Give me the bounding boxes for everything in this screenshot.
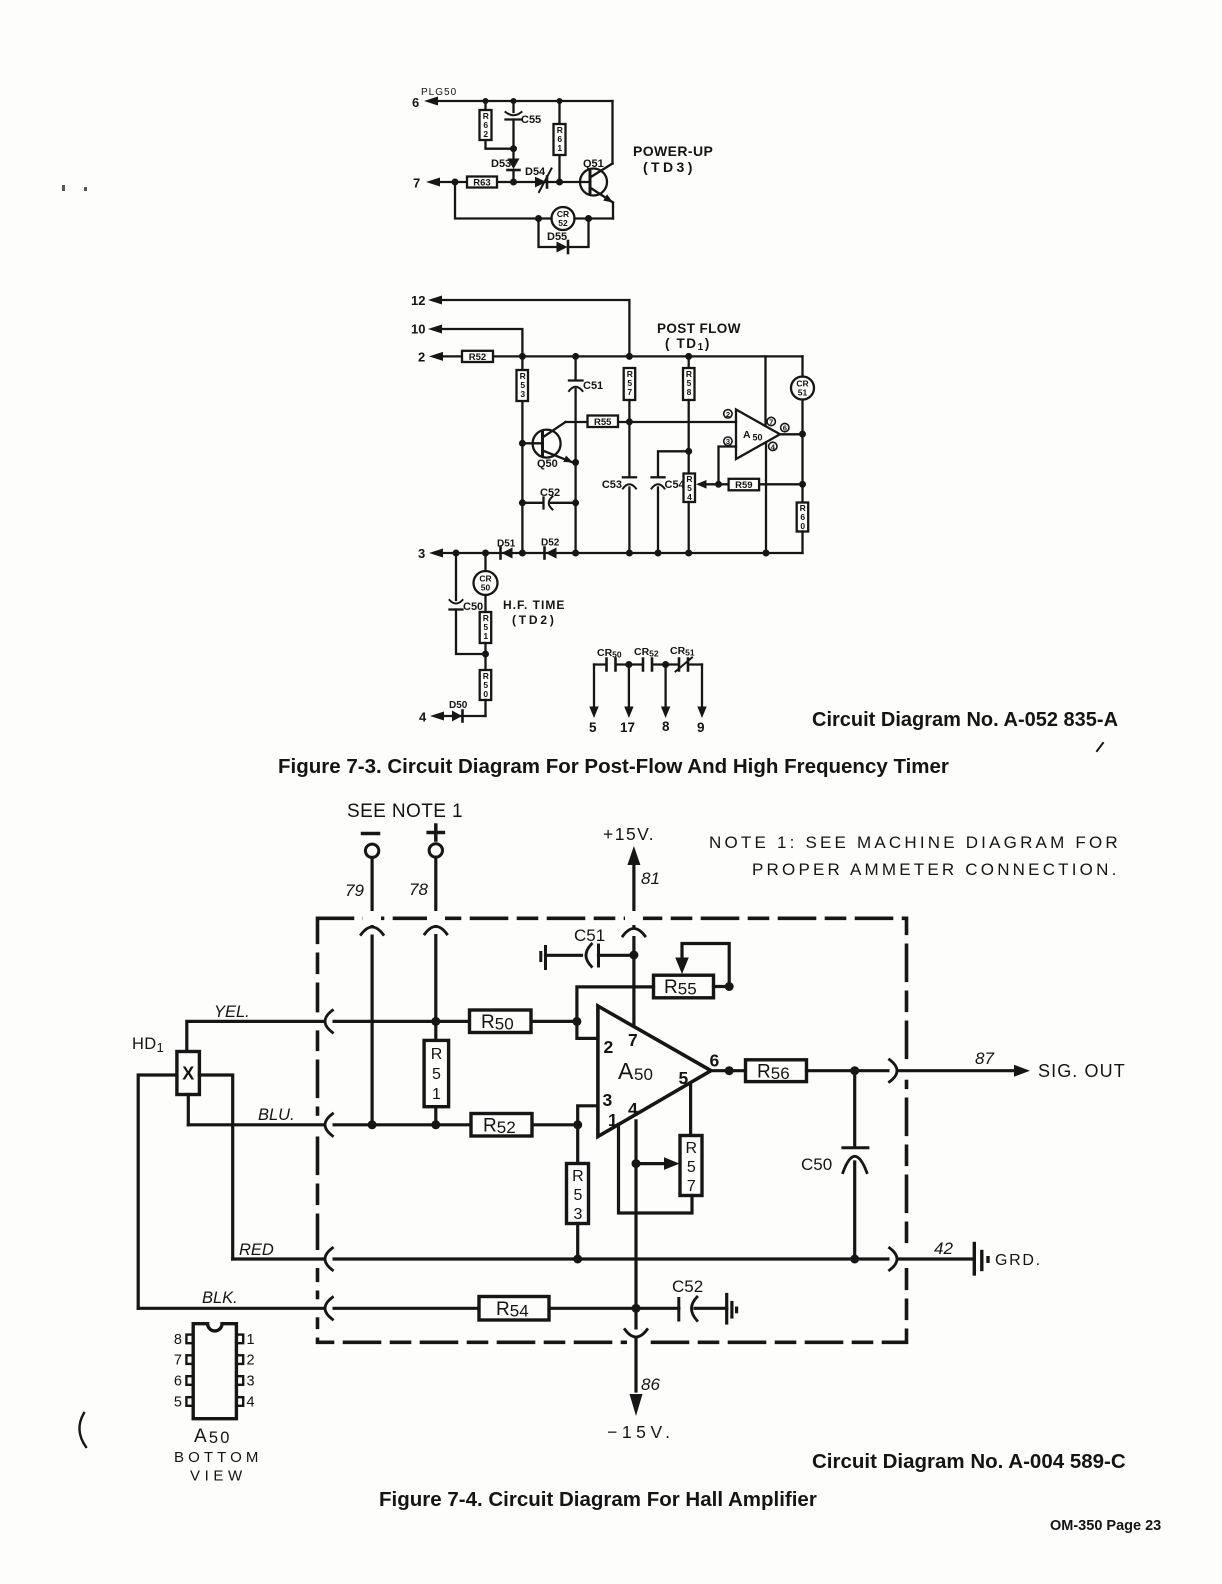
junction	[799, 431, 806, 438]
svg-text:BLK.: BLK.	[202, 1289, 238, 1307]
capacitor C52	[672, 1277, 738, 1323]
svg-text:CR51: CR51	[670, 645, 695, 658]
resistor R54	[479, 1297, 549, 1321]
resistor R59 with wiper arrow to R54	[696, 479, 803, 491]
svg-text:5: 5	[573, 1187, 582, 1204]
node 5	[589, 720, 597, 735]
svg-text:D54: D54	[525, 166, 546, 178]
svg-text:12: 12	[411, 293, 425, 308]
label A50 BOTTOM VIEW	[174, 1426, 263, 1485]
svg-text:R: R	[572, 1168, 584, 1185]
resistor R50 (TD2)	[480, 670, 492, 716]
svg-text:(TD2): (TD2)	[512, 613, 557, 627]
junction	[632, 1159, 641, 1168]
svg-text:6: 6	[412, 95, 419, 110]
svg-text:8: 8	[662, 719, 670, 734]
svg-text:C53: C53	[602, 479, 622, 491]
wire: A50 output	[711, 1069, 746, 1072]
svg-text:POST FLOW: POST FLOW	[657, 321, 741, 336]
node 79	[345, 881, 364, 900]
stray parenthesis mark	[79, 1413, 86, 1447]
svg-text:R: R	[686, 1140, 698, 1157]
svg-text:BLU.: BLU.	[258, 1106, 295, 1124]
wire: minus lead	[371, 858, 374, 1125]
svg-text:Circuit Diagram No. A-004 589-: Circuit Diagram No. A-004 589-C	[812, 1450, 1126, 1473]
junction	[850, 1255, 859, 1264]
svg-text:OM-350 Page 23: OM-350 Page 23	[1050, 1518, 1161, 1534]
junction	[556, 179, 563, 186]
capacitor C52 (TD1)	[522, 487, 575, 510]
node 3	[418, 546, 425, 561]
junction	[511, 98, 517, 104]
contact CR51 (normally closed)	[676, 658, 693, 672]
DIP pin number 4	[247, 1395, 255, 1411]
svg-text:4: 4	[687, 492, 692, 502]
label YEL.	[214, 1003, 250, 1021]
junction	[510, 179, 517, 186]
node 87	[975, 1049, 994, 1068]
wire: contact bus	[594, 663, 702, 665]
relay coil CR52	[552, 207, 575, 230]
break mark plus lead	[425, 927, 447, 935]
junction	[626, 353, 633, 360]
svg-text:R50: R50	[481, 1012, 514, 1034]
svg-text:A50: A50	[194, 1426, 232, 1447]
svg-text:+15V.: +15V.	[603, 824, 655, 844]
stray specks	[62, 185, 87, 191]
wire: YEL lead	[187, 1021, 577, 1051]
wire: node 4	[442, 715, 486, 717]
wire: pin 3 jog	[578, 1106, 598, 1125]
node 7	[413, 176, 420, 191]
junction	[685, 448, 692, 455]
wire: TD1 top rail	[441, 355, 803, 357]
break mark minus lead	[361, 927, 383, 935]
svg-text:86: 86	[641, 1375, 660, 1394]
hall device X	[177, 1052, 200, 1095]
svg-text:BOTTOM: BOTTOM	[174, 1449, 263, 1466]
pin 1	[608, 1110, 618, 1130]
svg-text:8: 8	[174, 1332, 182, 1348]
svg-text:5: 5	[679, 1068, 689, 1088]
capacitor C55	[506, 101, 542, 159]
wire: A50 output	[780, 433, 803, 435]
wire: R57 column	[628, 400, 630, 553]
svg-text:PROPER AMMETER CONNECTION.: PROPER AMMETER CONNECTION.	[752, 860, 1120, 879]
label POST FLOW (TD1)	[657, 321, 741, 353]
svg-text:7: 7	[628, 1030, 638, 1050]
svg-text:10: 10	[411, 322, 425, 337]
svg-text:YEL.: YEL.	[214, 1003, 250, 1021]
svg-text:C55: C55	[521, 114, 541, 126]
svg-text:17: 17	[620, 720, 635, 735]
wire: terminal 5 arrow	[589, 665, 598, 719]
svg-text:3: 3	[247, 1374, 255, 1390]
svg-text:A: A	[618, 1058, 634, 1084]
svg-text:1: 1	[483, 631, 488, 641]
node 10	[411, 322, 425, 337]
resistor R57	[624, 368, 636, 400]
svg-text:5: 5	[589, 720, 597, 735]
svg-text:Figure 7-3. Circuit Diagram Fo: Figure 7-3. Circuit Diagram For Post-Flo…	[278, 755, 949, 778]
svg-text:1: 1	[432, 1086, 441, 1103]
wire: pin 7 from top rail	[764, 356, 766, 425]
junction	[585, 215, 592, 222]
junction	[572, 353, 579, 360]
contact CR51 label	[670, 645, 695, 658]
svg-text:R52: R52	[469, 352, 486, 363]
svg-text:SEE NOTE 1: SEE NOTE 1	[347, 801, 463, 822]
op-amp A50 (TD1)	[736, 410, 780, 460]
caption: Circuit Diagram No. A-004 589-C	[812, 1450, 1126, 1473]
svg-text:5: 5	[687, 1159, 696, 1176]
svg-text:51: 51	[798, 388, 808, 398]
label BLU.	[258, 1106, 295, 1124]
resistor R58	[683, 356, 695, 473]
pin 6	[710, 1051, 720, 1071]
wire: R55 left to inverting node	[577, 987, 654, 1022]
svg-text:A: A	[743, 429, 751, 441]
wire: X left to BLK	[138, 1075, 177, 1308]
junction	[482, 651, 489, 658]
wire: plus lead	[434, 857, 437, 1021]
dashed enclosure	[318, 918, 907, 1342]
svg-text:50: 50	[753, 433, 763, 443]
contact CR50 label	[597, 647, 622, 660]
svg-text:CR50: CR50	[597, 647, 622, 660]
svg-text:Circuit Diagram No. A-052 835-: Circuit Diagram No. A-052 835-A	[812, 709, 1118, 731]
footer: OM-350 Page 23	[1050, 1518, 1161, 1534]
junction	[572, 499, 579, 506]
svg-text:50: 50	[481, 583, 491, 593]
label POWER-UP (TD3)	[633, 143, 713, 175]
svg-text:C51: C51	[574, 926, 605, 945]
resistor R56	[746, 1060, 807, 1083]
svg-text:R54: R54	[496, 1299, 529, 1321]
svg-text:1: 1	[557, 143, 562, 153]
pin 3	[603, 1090, 613, 1110]
terminal minus	[363, 834, 379, 858]
svg-text:R59: R59	[735, 480, 752, 491]
junction	[573, 1120, 582, 1129]
svg-text:79: 79	[345, 881, 364, 900]
junction	[519, 353, 526, 360]
node 12	[411, 293, 425, 308]
wire: terminal 9 arrow	[697, 665, 706, 719]
svg-text:X: X	[182, 1064, 194, 1084]
svg-text:R56: R56	[757, 1062, 790, 1084]
svg-text:CR52: CR52	[634, 646, 659, 659]
break mark +15V lead	[623, 929, 645, 937]
op-amp A50	[598, 1006, 711, 1137]
junction	[629, 951, 638, 960]
junction	[368, 1120, 377, 1129]
wire: TD1 bottom rail	[441, 552, 803, 554]
pin 2	[724, 410, 732, 419]
svg-text:7: 7	[174, 1353, 182, 1369]
svg-text:Q50: Q50	[537, 458, 558, 470]
A50 DIP package bottom view	[186, 1324, 243, 1419]
DIP pin number 3	[247, 1374, 255, 1390]
resistor R61	[554, 101, 566, 182]
junction	[850, 1066, 859, 1075]
relay coil CR50	[474, 553, 498, 612]
svg-text:52: 52	[558, 218, 568, 228]
break mark output	[890, 1060, 898, 1082]
wire: X right to RED	[199, 1075, 232, 1259]
junction	[572, 459, 579, 466]
svg-text:2: 2	[483, 129, 488, 139]
svg-text:R55: R55	[594, 417, 612, 428]
junction	[519, 440, 526, 447]
caption: Figure 7-3	[278, 755, 949, 778]
svg-text:5: 5	[174, 1395, 182, 1411]
svg-text:0: 0	[483, 689, 488, 699]
svg-text:87: 87	[975, 1049, 994, 1068]
capacitor C53	[602, 477, 636, 491]
resistor R51 (TD2)	[480, 612, 492, 670]
junction	[519, 499, 526, 506]
svg-text:1: 1	[608, 1110, 618, 1130]
svg-text:3: 3	[573, 1206, 582, 1223]
diode D50	[449, 700, 468, 722]
diode D54	[525, 166, 552, 192]
caption: Circuit Diagram No. A-052 835-A	[812, 709, 1118, 731]
resistor R52	[462, 351, 493, 363]
resistor R57	[680, 1136, 702, 1196]
wire: pin 5 to R57	[689, 1086, 692, 1136]
svg-text:Figure 7-4. Circuit Diagram Fo: Figure 7-4. Circuit Diagram For Hall Amp…	[379, 1488, 817, 1511]
wire: BLK lead	[138, 1307, 679, 1310]
junction	[573, 1255, 582, 1264]
svg-text:R55: R55	[664, 977, 697, 999]
node 4	[419, 710, 427, 725]
junction	[632, 1304, 641, 1313]
wire: pin 4 / -15V rail	[634, 1121, 637, 1391]
resistor R53	[517, 356, 529, 553]
resistor R63	[467, 177, 497, 189]
transistor Q51	[580, 158, 613, 203]
DIP pin number 8	[174, 1332, 182, 1348]
node 42	[934, 1239, 953, 1258]
resistor R51	[424, 1021, 449, 1124]
border gaps at wire crossings	[311, 911, 914, 1349]
svg-text:D53: D53	[491, 158, 511, 170]
svg-text:D50: D50	[449, 700, 468, 711]
svg-text:2: 2	[418, 350, 425, 365]
junction	[685, 353, 692, 360]
svg-text:4: 4	[628, 1099, 638, 1119]
svg-text:2: 2	[726, 410, 730, 419]
junction	[431, 1017, 440, 1026]
wire: TD3 bottom loop	[455, 182, 613, 219]
label SIG. OUT	[1038, 1061, 1126, 1081]
DIP pin number 6	[174, 1374, 182, 1390]
svg-text:0: 0	[800, 521, 805, 531]
junction	[572, 1017, 581, 1026]
node 81	[641, 869, 660, 888]
wire: Q51 emitter down	[612, 203, 614, 219]
junction	[725, 1066, 734, 1075]
svg-text:81: 81	[641, 869, 660, 888]
svg-text:7: 7	[687, 1178, 696, 1195]
R57 wiper arrow	[636, 1157, 680, 1170]
capacitor C50	[801, 1071, 868, 1259]
junction	[799, 481, 806, 488]
svg-text:6: 6	[710, 1051, 720, 1071]
svg-text:4: 4	[247, 1395, 255, 1411]
capacitor C51 (TD1)	[569, 356, 603, 553]
contact CR52	[643, 659, 652, 671]
svg-text:2: 2	[247, 1353, 255, 1369]
junctions on bottom rail	[453, 550, 460, 557]
wire: terminal 8 arrow	[661, 665, 670, 719]
node 9	[697, 720, 705, 735]
svg-text:3: 3	[603, 1090, 613, 1110]
wire: X bottom to BLU	[187, 1095, 190, 1125]
relay coil CR51	[791, 356, 814, 502]
node 17	[620, 720, 635, 735]
diode D55	[539, 219, 589, 254]
svg-text:3: 3	[726, 437, 730, 446]
svg-text:6: 6	[174, 1374, 182, 1390]
junction	[715, 481, 722, 488]
resistor R55	[654, 975, 714, 998]
wire: node 12 to R57 column	[440, 300, 629, 356]
svg-text:50: 50	[634, 1065, 653, 1084]
pin 4	[628, 1099, 638, 1119]
ground GRD termination	[974, 1244, 1042, 1275]
svg-text:D55: D55	[547, 231, 567, 243]
svg-text:NOTE 1: SEE MACHINE DIAGRAM FO: NOTE 1: SEE MACHINE DIAGRAM FOR	[709, 833, 1121, 852]
svg-text:(TD3): (TD3)	[643, 159, 696, 175]
svg-text:7: 7	[627, 387, 632, 397]
svg-text:2: 2	[604, 1037, 614, 1057]
DIP pin number 1	[247, 1332, 255, 1348]
junction	[662, 661, 669, 668]
diode D53	[491, 158, 520, 182]
caption: Figure 7-4	[379, 1488, 817, 1511]
svg-text:VIEW: VIEW	[190, 1468, 247, 1485]
wire: pin 1 loop to R57 bottom	[619, 1125, 693, 1214]
wire: node 6 top rail	[436, 100, 613, 102]
junction	[431, 1120, 440, 1129]
resistor R52	[471, 1114, 532, 1138]
node 2	[418, 350, 425, 365]
svg-text:5: 5	[432, 1066, 441, 1083]
contact CR52 label	[634, 646, 659, 659]
pin 3	[724, 437, 732, 446]
svg-text:6: 6	[783, 424, 787, 433]
resistor R60	[797, 503, 809, 554]
svg-text:C51: C51	[583, 380, 603, 392]
R55 feedback loop with wiper arrow	[675, 944, 729, 987]
junction	[557, 98, 563, 104]
break mark RED right	[890, 1248, 898, 1270]
break mark RED left	[325, 1248, 333, 1270]
wire: terminal 17 arrow	[624, 665, 633, 719]
capacitor C51	[541, 926, 634, 969]
svg-text:SIG. OUT: SIG. OUT	[1038, 1061, 1126, 1081]
junction	[510, 145, 517, 152]
wire: BLU lead	[188, 1123, 577, 1126]
contact CR50	[607, 659, 616, 671]
DIP pin number 7	[174, 1353, 182, 1369]
node 86	[641, 1375, 660, 1394]
DIP pin number 5	[174, 1395, 182, 1411]
wire: output to SIG. OUT	[807, 1069, 1017, 1072]
wire: node 7 base rail	[438, 181, 588, 183]
node 78	[409, 880, 428, 899]
svg-text:HD1: HD1	[132, 1035, 164, 1055]
resistor R62	[480, 101, 514, 149]
terminal plus	[428, 825, 443, 857]
junction	[452, 179, 459, 186]
wire: pin 4 to bottom rail	[765, 443, 767, 554]
label H.F. TIME (TD2)	[503, 598, 565, 627]
node 6 (PLG50)	[412, 95, 419, 110]
svg-text:PLG50: PLG50	[421, 87, 457, 98]
label HD1	[132, 1035, 164, 1055]
svg-text:7: 7	[413, 176, 420, 191]
+15V supply	[603, 824, 655, 1026]
diode D51	[497, 539, 516, 559]
pin 4	[769, 442, 777, 451]
svg-text:3: 3	[418, 546, 425, 561]
wire: RED lead to GRD	[233, 1257, 975, 1260]
label BLK.	[202, 1289, 238, 1307]
wire: Q51 collector to top rail	[611, 101, 613, 164]
resistor R55	[588, 416, 619, 429]
note text	[709, 833, 1121, 879]
wire: pin 2 jog	[577, 1021, 598, 1038]
svg-text:8: 8	[687, 387, 692, 397]
label SEE NOTE 1	[347, 801, 463, 822]
wire: node 10 to R53 column	[440, 329, 522, 356]
pin 2	[604, 1037, 614, 1057]
break mark -15V rail	[625, 1330, 647, 1338]
svg-text:1: 1	[247, 1332, 255, 1348]
svg-text:78: 78	[409, 880, 428, 899]
pin 7	[628, 1030, 638, 1050]
capacitor C54	[652, 451, 689, 553]
node 8	[662, 719, 670, 734]
junction	[725, 982, 734, 991]
capacitor C50 (TD2)	[450, 553, 486, 654]
break mark BLK	[325, 1297, 333, 1319]
junction	[626, 418, 633, 425]
wire: pin 3 to R59 line	[719, 447, 737, 485]
svg-text:9: 9	[697, 720, 705, 735]
-15V supply arrow	[630, 1394, 643, 1416]
label -15V.	[607, 1422, 675, 1442]
svg-text:POWER-UP: POWER-UP	[633, 143, 713, 159]
label RED	[239, 1241, 274, 1259]
resistor R50	[470, 1010, 532, 1034]
svg-text:3: 3	[520, 389, 525, 399]
svg-text:4: 4	[419, 710, 427, 725]
junction	[483, 98, 489, 104]
svg-text:GRD.: GRD.	[995, 1252, 1042, 1269]
svg-text:RED: RED	[239, 1241, 274, 1259]
DIP pin number 2	[247, 1353, 255, 1369]
pin 7	[767, 417, 775, 426]
pin 6	[781, 423, 789, 432]
svg-text:( TD1): ( TD1)	[665, 336, 711, 353]
wire: R55 output line to pin 2	[566, 421, 737, 423]
diode D52	[541, 538, 560, 559]
svg-text:42: 42	[934, 1239, 953, 1258]
